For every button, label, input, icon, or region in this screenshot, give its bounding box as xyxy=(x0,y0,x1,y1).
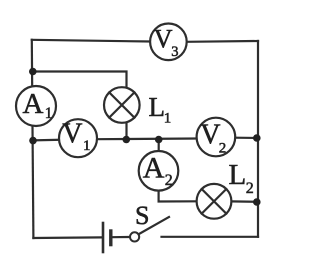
label V1 xyxy=(62,119,90,154)
node J3 (middle wire / L1 lead) xyxy=(123,136,131,144)
label V2 xyxy=(200,119,226,156)
svg-text:2: 2 xyxy=(165,172,173,189)
svg-text:L: L xyxy=(149,92,166,122)
svg-text:V: V xyxy=(62,119,82,150)
switch S lever xyxy=(139,217,169,234)
voltmeter V3 xyxy=(150,24,187,61)
svg-text:A: A xyxy=(143,152,165,185)
svg-text:L: L xyxy=(229,159,247,191)
lamp L2 xyxy=(197,184,232,219)
wire right side xyxy=(257,41,259,237)
node J5 (right wire / V2 lead) xyxy=(253,134,261,142)
wire middle V1 to V2 xyxy=(97,137,197,140)
svg-text:3: 3 xyxy=(171,44,178,60)
switch S pivot circle xyxy=(130,232,139,241)
svg-text:1: 1 xyxy=(45,105,53,122)
svg-text:1: 1 xyxy=(83,138,91,154)
voltmeter V1 xyxy=(59,119,97,157)
label L2 xyxy=(229,159,254,197)
wire lamp L1 bottom lead xyxy=(125,122,127,139)
label L1 xyxy=(149,92,172,127)
node J2 (left wire / V1 branch) xyxy=(29,137,37,145)
wire ammeter A2 bottom lead to lamp L2 xyxy=(159,190,197,201)
svg-text:2: 2 xyxy=(219,141,227,157)
wire top-right segment xyxy=(187,40,258,43)
wire top-left segment xyxy=(32,40,150,42)
label V3 xyxy=(154,24,179,60)
node J6 (right wire / L2 lead) xyxy=(253,198,261,206)
wire bottom-left to battery xyxy=(33,236,101,239)
battery cell: long plate xyxy=(102,223,105,252)
svg-text:S: S xyxy=(135,201,149,230)
voltmeter V2 xyxy=(197,118,236,157)
wire ammeter A2 top lead xyxy=(158,140,160,152)
label A1 xyxy=(23,88,53,122)
svg-text:A: A xyxy=(23,88,44,120)
label S (switch) xyxy=(135,201,149,230)
svg-text:V: V xyxy=(154,24,173,53)
wire bottom-right from switch to right side xyxy=(162,236,259,238)
svg-text:V: V xyxy=(200,119,220,150)
wire voltmeter V2 to right side xyxy=(235,137,258,140)
lamp L1 xyxy=(104,87,140,123)
battery cell: short plate xyxy=(109,231,112,245)
ammeter A1 xyxy=(16,86,56,126)
svg-text:2: 2 xyxy=(246,180,254,197)
svg-text:1: 1 xyxy=(164,111,172,127)
wire left side xyxy=(32,40,34,238)
wire battery to switch xyxy=(112,236,130,238)
wire node J2 to voltmeter V1 xyxy=(33,139,60,142)
wire lamp L2 to right side xyxy=(231,200,258,203)
node J1 (left wire / L1 branch) xyxy=(29,68,37,76)
wire branch from node J1 to lamp L1 top xyxy=(32,72,127,88)
ammeter A2 xyxy=(139,151,179,191)
label A2 xyxy=(143,152,173,190)
node J4 (middle wire / A2 lead) xyxy=(155,136,163,144)
